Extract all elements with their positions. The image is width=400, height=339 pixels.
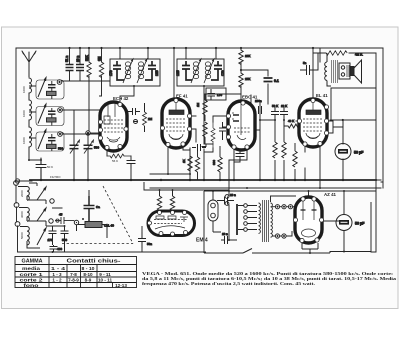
wire HT to AZ41 xyxy=(271,191,345,252)
capacitor C9 xyxy=(211,61,222,80)
op-amp?no: tube U1 ECH42 xyxy=(98,96,129,151)
svg-text:GAMMA: GAMMA xyxy=(22,259,43,265)
pin 2 xyxy=(297,119,301,123)
capacitor C29 xyxy=(234,150,244,162)
svg-text:500: 500 xyxy=(62,238,67,242)
node terminal C xyxy=(74,220,78,224)
coil L3 antenna stack xyxy=(29,127,32,147)
switch arrow T1p xyxy=(123,59,133,83)
capacitor C10 xyxy=(208,89,216,100)
switch S3 mains xyxy=(243,249,254,254)
speaker voice coil box xyxy=(339,63,350,79)
wire EBC41 pins xyxy=(204,94,247,191)
coil T1 primary xyxy=(125,62,130,79)
coil L5 osc xyxy=(19,208,29,222)
wire y79 coupling xyxy=(241,70,268,104)
capacitor C23 400 xyxy=(50,245,58,252)
pin 3 xyxy=(226,125,230,129)
svg-text:EBC 41: EBC 41 xyxy=(242,95,258,100)
pin 3 xyxy=(324,105,328,109)
wire ECH42 cathode branch xyxy=(107,150,131,180)
svg-text:EF 41: EF 41 xyxy=(176,94,188,99)
capacitor C27 10n xyxy=(221,236,234,244)
tube U3 EBC41 xyxy=(226,95,258,151)
wire osc grid ech xyxy=(88,152,104,156)
phono jack capsule xyxy=(208,200,218,221)
svg-text:3M: 3M xyxy=(98,56,102,61)
svg-text:300: 300 xyxy=(212,160,216,165)
coil T2 primary xyxy=(193,62,198,79)
svg-text:5000: 5000 xyxy=(20,232,24,239)
switch arrow T1s xyxy=(137,59,147,83)
pin 6 xyxy=(315,238,319,242)
transformer T4 secondary xyxy=(271,203,273,237)
pin 4 xyxy=(148,221,152,225)
svg-text:0.1: 0.1 xyxy=(274,79,279,83)
switch S2c xyxy=(37,228,46,245)
EM4 section xyxy=(138,182,229,252)
wire EBC41 anode right xyxy=(251,95,275,180)
svg-text:25K: 25K xyxy=(245,77,250,81)
power box xyxy=(204,191,376,253)
antenna xyxy=(22,51,36,77)
wire EF41 pins down xyxy=(168,146,190,174)
pin 2 xyxy=(98,120,102,124)
resistor R10 xyxy=(282,120,286,180)
wire drop x78 xyxy=(79,48,81,81)
svg-text:CAL 40: CAL 40 xyxy=(104,224,114,228)
wire az41 cathode xyxy=(302,243,318,253)
capacitor padder 3 xyxy=(48,138,56,141)
node terminal right B2 xyxy=(49,219,53,223)
IF transformer T1 xyxy=(109,59,160,86)
capacitor C22 500 xyxy=(61,226,69,245)
wire rail link right xyxy=(376,180,383,182)
capacitor C4 51n xyxy=(66,65,74,71)
wire drop x70 xyxy=(69,48,71,81)
tube U6 AZ41 rectifier xyxy=(293,192,336,243)
wire block2 stub xyxy=(29,108,52,126)
svg-text:400: 400 xyxy=(57,247,62,251)
node terminal A2 xyxy=(58,108,63,113)
left of EBC41 resistors xyxy=(196,94,226,148)
transformer T3 core xyxy=(332,60,338,83)
block box 2 xyxy=(36,107,64,126)
pin 6 xyxy=(171,232,175,236)
resistor R9 xyxy=(273,120,277,180)
resistor R11 xyxy=(293,143,297,180)
svg-text:12-13: 12-13 xyxy=(115,283,127,288)
capacitor C13 100 xyxy=(192,144,206,151)
svg-text:2M: 2M xyxy=(148,117,153,121)
svg-text:500: 500 xyxy=(58,147,63,151)
block box 1 xyxy=(36,80,64,99)
svg-text:170: 170 xyxy=(109,70,113,76)
wire ground rail thick xyxy=(30,179,376,181)
voltage selector taps xyxy=(244,204,248,208)
pin 1 xyxy=(241,101,245,105)
wire bus y81 tuner xyxy=(62,80,110,82)
pin 4 xyxy=(226,135,230,139)
switch S1c xyxy=(38,130,46,150)
svg-text:1 - 2: 1 - 2 xyxy=(52,278,62,283)
wire left chassis column xyxy=(16,185,30,252)
switch S2a xyxy=(37,187,46,200)
svg-text:1M: 1M xyxy=(196,102,200,107)
oscillator section xyxy=(14,181,142,252)
svg-text:125: 125 xyxy=(155,70,159,76)
wire r5 xyxy=(144,103,146,132)
block box 3 xyxy=(36,132,64,151)
pin 6 xyxy=(181,142,185,146)
svg-text:Contatti chius-: Contatti chius- xyxy=(67,259,122,265)
svg-text:50n: 50n xyxy=(147,242,152,246)
resistor R15 xyxy=(211,122,215,148)
svg-text:1K: 1K xyxy=(182,159,186,163)
filament terminals bottom xyxy=(275,234,279,238)
resistor R13 1M xyxy=(203,94,207,121)
pin 1 xyxy=(158,211,162,215)
svg-text:51K: 51K xyxy=(85,54,89,61)
wire left border xyxy=(15,48,17,182)
right of EBC41 xyxy=(255,99,302,180)
pin 3 xyxy=(293,218,297,222)
svg-text:5n: 5n xyxy=(303,61,307,65)
wire EF41 anode xyxy=(190,116,206,147)
pin 2 xyxy=(226,114,230,118)
wire selector feed xyxy=(229,191,237,240)
svg-text:FILTRO: FILTRO xyxy=(50,175,61,179)
wire drop x100 xyxy=(100,48,102,96)
svg-text:50 K: 50 K xyxy=(47,165,53,169)
coil L2 antenna stack xyxy=(29,100,32,120)
switch arrow var2 xyxy=(84,140,94,154)
svg-text:corte 1: corte 1 xyxy=(20,272,44,277)
CAPTION xyxy=(142,271,397,286)
wire osc frame xyxy=(27,183,46,226)
pin 5 xyxy=(232,145,236,149)
wire term to tube xyxy=(90,132,99,134)
svg-text:42 K: 42 K xyxy=(355,53,363,57)
svg-text:51 n: 51 n xyxy=(65,56,69,62)
node terminal osc grid xyxy=(86,131,90,135)
resistor R3 10K xyxy=(239,50,243,65)
capacitor C21 170 xyxy=(49,226,57,245)
pin 5 xyxy=(300,238,304,242)
svg-text:45: 45 xyxy=(59,213,63,217)
coil L1 antenna stack xyxy=(29,78,32,93)
capacitor C12 xyxy=(128,108,140,115)
wire top B+ rail xyxy=(16,47,383,49)
coil L4 osc xyxy=(18,187,29,201)
switch arrow T2p xyxy=(191,59,201,83)
switch S2b xyxy=(37,208,46,221)
wire drop x241 resistor chain xyxy=(240,48,242,99)
coil L6 osc xyxy=(20,227,40,249)
transformer T4 core xyxy=(263,200,269,242)
pin 2 xyxy=(312,197,316,201)
svg-text:50 µF: 50 µF xyxy=(354,151,364,155)
svg-text:Ca: Ca xyxy=(96,205,100,209)
tube U5 EM4 tuning eye xyxy=(148,211,208,244)
svg-text:50 µF: 50 µF xyxy=(355,222,365,226)
resistor R7 xyxy=(195,150,199,180)
coil core hatched 1 xyxy=(47,91,57,95)
wire bus y110 tuner xyxy=(62,109,99,111)
svg-text:10 - 11: 10 - 11 xyxy=(98,278,112,283)
resistor R18 xyxy=(170,190,174,212)
resistor R19 56K horizontal xyxy=(107,154,131,158)
switch S1b xyxy=(38,104,46,124)
wire drop x204 xyxy=(203,86,205,180)
pin 1 xyxy=(311,98,315,102)
svg-text:56 K: 56 K xyxy=(112,159,118,163)
capacitor C18 5n xyxy=(300,65,318,75)
capacitor trimmer 45 xyxy=(55,217,74,224)
wire vertical x74 xyxy=(73,110,75,180)
coil T2 secondary xyxy=(205,62,210,79)
svg-text:frequenza 470 kc/s. Potenza d': frequenza 470 kc/s. Potenza d'uscita 2,5… xyxy=(142,281,315,286)
svg-text:10 n: 10 n xyxy=(76,56,80,62)
capacitor padder 2 xyxy=(48,111,56,114)
node terminal P3 xyxy=(15,222,20,227)
wire drop x134 IF1 to ECH42 xyxy=(120,48,148,102)
svg-text:8 - 10: 8 - 10 xyxy=(82,266,95,271)
COMPONENTS xyxy=(15,51,61,239)
capacitor C15 xyxy=(271,106,279,120)
resistor R14 xyxy=(203,122,207,144)
node phono terminal a xyxy=(225,195,229,199)
wire y120 feed xyxy=(330,119,376,121)
wire block1 stub xyxy=(29,81,52,99)
pin 6 xyxy=(303,142,307,146)
wire el41 grid xyxy=(284,121,299,126)
resistor R16 42K xyxy=(326,51,347,55)
switch arrow var1 xyxy=(70,140,80,154)
resistor R4 25K xyxy=(239,73,243,88)
svg-text:1000: 1000 xyxy=(22,110,26,117)
pin 1 xyxy=(301,197,305,201)
capacitor C28 xyxy=(127,161,135,169)
transformer T3 output primary xyxy=(325,53,331,86)
wire block3 stub xyxy=(29,134,52,151)
svg-text:50 K: 50 K xyxy=(272,104,278,108)
capacitor C16 xyxy=(280,106,288,120)
svg-text:corte 2: corte 2 xyxy=(20,278,44,283)
pin 4 xyxy=(324,119,328,123)
capacitor variable tuning 2 xyxy=(84,145,93,148)
wire antenna column joints xyxy=(29,93,41,160)
electrolytic C19 50uF xyxy=(335,144,364,160)
tuner band blocks xyxy=(29,78,64,152)
svg-text:500: 500 xyxy=(94,146,99,150)
filament terminals top xyxy=(275,205,279,209)
node terminal A1 xyxy=(57,80,62,85)
capacitor C8 125 xyxy=(182,61,192,80)
pin 5 xyxy=(324,131,328,135)
resistor CAL40 hatched xyxy=(85,222,102,228)
pin 7 xyxy=(184,231,188,235)
pin 2 xyxy=(171,211,175,215)
capacitor C ant 50n xyxy=(36,158,46,180)
dashed gang link horizontal xyxy=(62,243,133,245)
pin 5 xyxy=(166,142,170,146)
pin 3 xyxy=(187,114,191,118)
svg-text:10K: 10K xyxy=(245,54,250,58)
resistor R5 2M xyxy=(143,112,147,126)
wire osc caps bus xyxy=(18,208,143,252)
svg-text:1000: 1000 xyxy=(22,137,26,144)
power supply section xyxy=(204,191,376,253)
voltage selector bar xyxy=(236,204,238,235)
svg-text:EM 4: EM 4 xyxy=(196,238,208,244)
svg-text:170: 170 xyxy=(221,70,225,76)
wire secondary rail xyxy=(150,187,381,189)
capacitor C6 170 xyxy=(113,61,124,80)
capacitor variable tuning 1 xyxy=(70,145,79,148)
speaker magnet xyxy=(351,67,355,76)
speaker cone xyxy=(354,60,362,83)
trimmer box 170 xyxy=(206,88,226,100)
wire selector leads xyxy=(238,206,257,230)
wire speaker secondary xyxy=(319,48,321,62)
pin 4 xyxy=(319,218,323,222)
output stage top right xyxy=(300,51,363,86)
transformer T4 primary xyxy=(259,203,261,233)
electrolytic C20 50uF xyxy=(336,215,365,231)
pin 2 xyxy=(160,126,164,130)
resistor R12 40K horizontal xyxy=(284,124,302,128)
capacitor padder 1 xyxy=(48,85,56,88)
tube U2 EF41 xyxy=(160,94,191,149)
svg-text:40 K: 40 K xyxy=(288,119,294,123)
wire drop x174 EF41 top xyxy=(173,48,175,99)
node terminal P2 xyxy=(14,203,19,208)
table frame xyxy=(15,257,137,288)
svg-text:1 - 3: 1 - 3 xyxy=(52,272,62,277)
below EF41 resistors xyxy=(182,144,222,180)
svg-text:1000: 1000 xyxy=(22,86,26,93)
tube U4 EL41 xyxy=(297,93,328,147)
capacitor C24 xyxy=(84,196,95,222)
node terminal right B1 xyxy=(50,199,54,203)
svg-text:100n: 100n xyxy=(255,99,262,103)
wire jack leads xyxy=(213,191,221,232)
wire inner box right xyxy=(375,53,377,88)
capacitor C25 50n xyxy=(138,232,146,248)
pin 1 xyxy=(118,102,122,106)
pin 6 xyxy=(118,144,122,148)
pin 5 xyxy=(159,232,163,236)
svg-text:AZ 41: AZ 41 xyxy=(324,192,337,197)
wire em4 top feeds xyxy=(144,182,229,196)
svg-text:ECH 42: ECH 42 xyxy=(113,96,129,101)
coil T1 secondary xyxy=(138,62,143,79)
resistor R6 xyxy=(188,148,192,180)
TABLE xyxy=(15,257,137,288)
svg-text:media: media xyxy=(22,266,41,271)
capacitor C26 10n xyxy=(217,197,234,205)
coil core hatched 3 xyxy=(47,144,57,148)
svg-text:3000: 3000 xyxy=(20,211,24,218)
capacitor C7 xyxy=(145,61,156,80)
node terminal P1 xyxy=(14,181,19,186)
node screw terminal xyxy=(134,120,138,124)
svg-text:170: 170 xyxy=(217,93,222,97)
resistor R2 1M xyxy=(99,62,103,78)
pin 3 xyxy=(183,211,187,215)
wire osc to tube xyxy=(74,190,108,238)
pin 1 xyxy=(174,98,178,102)
resistor R1 51K xyxy=(87,62,91,78)
wire EL41 pins xyxy=(305,120,343,188)
node phono terminal b xyxy=(225,202,229,206)
capacitor C17 xyxy=(219,122,226,140)
resistor R8 xyxy=(218,146,222,180)
svg-text:7-8-9: 7-8-9 xyxy=(68,278,79,283)
svg-text:125: 125 xyxy=(176,70,180,76)
svg-text:170: 170 xyxy=(48,238,53,242)
svg-text:10 n: 10 n xyxy=(222,232,228,236)
switch arrow T2s xyxy=(204,59,214,83)
switch S1a xyxy=(38,78,46,98)
wire IF2 feeds xyxy=(186,48,216,59)
wire grid EL41 xyxy=(284,120,302,126)
wire drop x88 resistor feed xyxy=(88,48,90,131)
pin 7 xyxy=(124,127,128,131)
svg-text:9 - 11: 9 - 11 xyxy=(99,272,111,277)
wire right border xyxy=(382,48,384,188)
svg-text:10 n: 10 n xyxy=(230,193,236,197)
capacitor C11 0.1 xyxy=(264,78,273,82)
between tubes ECH42/EF41 xyxy=(128,103,153,132)
pin 4 xyxy=(187,127,191,131)
svg-text:8-9: 8-9 xyxy=(85,278,92,283)
svg-text:1 - 4: 1 - 4 xyxy=(51,266,66,271)
capacitor C14 100n xyxy=(259,103,262,120)
node terminal ground left xyxy=(15,179,19,183)
wire inner box right lower xyxy=(371,88,376,252)
svg-text:7-8: 7-8 xyxy=(70,272,77,277)
dashed gang link diagonal xyxy=(103,186,133,244)
svg-text:EL 41: EL 41 xyxy=(316,93,328,98)
pin 4 xyxy=(98,136,102,140)
wire em4 bottom xyxy=(142,226,206,252)
pin 7 xyxy=(318,141,322,145)
wire electrolytic1 leads xyxy=(342,120,344,180)
wire ground rail left thin xyxy=(16,180,32,182)
pin 5 xyxy=(105,145,109,149)
coil core hatched 2 xyxy=(47,118,57,122)
wire bus y134 tuner xyxy=(62,133,99,135)
svg-text:fono: fono xyxy=(24,283,39,288)
wire EL41 anode loop xyxy=(313,48,376,99)
svg-text:2000: 2000 xyxy=(20,190,24,197)
node terminal A3 xyxy=(58,132,63,137)
pin 3 xyxy=(98,128,102,132)
wire inner box top xyxy=(331,88,376,120)
wire rail mid left xyxy=(150,148,190,174)
wire vertical x88 xyxy=(87,135,89,180)
resistor R17 xyxy=(157,190,161,212)
capacitor C5 10n xyxy=(76,65,84,71)
pin 6 xyxy=(245,145,249,149)
svg-text:12 K: 12 K xyxy=(281,104,287,108)
IF transformer T2 xyxy=(176,59,225,86)
svg-text:8-10: 8-10 xyxy=(83,272,93,277)
